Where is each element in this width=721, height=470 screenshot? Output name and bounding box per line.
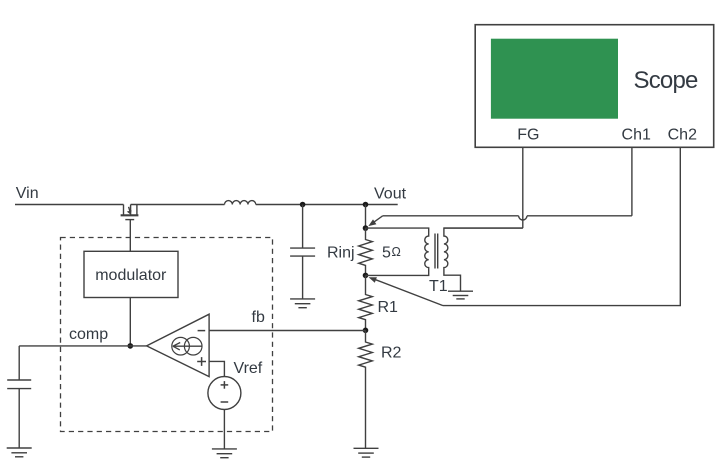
arrow Ch2 to injection bottom node: [369, 277, 443, 305]
wire hop over FG line: [519, 216, 527, 220]
resistor R1: [359, 275, 373, 330]
ground under Cout: [290, 299, 315, 308]
wire op-amp plus input to Vref: [209, 361, 224, 376]
ground under R2: [354, 448, 379, 457]
wire line A left segment: [383, 215, 519, 217]
transistor Q1 (high-side MOSFET): [121, 205, 139, 220]
svg-text:FG: FG: [517, 127, 539, 144]
wire switch node to inductor: [131, 204, 225, 206]
svg-text:comp: comp: [69, 326, 108, 343]
svg-text:R2: R2: [381, 345, 402, 362]
capacitor comp: [7, 346, 31, 448]
wire FG to transformer primary top: [444, 227, 523, 229]
wire FG output: [522, 147, 524, 228]
svg-text:Ch2: Ch2: [668, 127, 697, 144]
scope box: [475, 25, 714, 148]
resistor Rinj: [359, 228, 373, 275]
ground under T1 primary: [448, 291, 473, 299]
transformer T1 core: [435, 234, 438, 269]
capacitor Cout: [290, 205, 315, 299]
node injection top: [363, 225, 369, 231]
node Vout: [363, 202, 369, 208]
transformer T1 winding primary (right): [444, 228, 523, 291]
svg-text:R1: R1: [378, 299, 399, 316]
voltage source Vref: [208, 377, 241, 410]
svg-text:Ch1: Ch1: [622, 127, 651, 144]
arrow to injection top node: [368, 216, 382, 226]
svg-text:Rinj: Rinj: [327, 245, 355, 262]
svg-text:T1: T1: [429, 278, 448, 295]
modulator block: [84, 251, 178, 297]
node injection bottom: [363, 273, 369, 279]
svg-text:Ω: Ω: [392, 245, 401, 259]
op-amp U1 error amplifier: [147, 314, 210, 376]
wire Ch2: [443, 147, 680, 305]
wire Ch1 to injection top (line A): [527, 215, 632, 217]
wire inductor to Vout: [256, 204, 398, 206]
scope green screen: [491, 39, 618, 119]
ground under comp capacitor: [7, 448, 32, 457]
node comp: [128, 343, 134, 349]
svg-text:Scope: Scope: [634, 67, 699, 94]
dashed box control-loop boundary: [61, 238, 273, 432]
node fb divider: [363, 328, 369, 334]
svg-text:fb: fb: [252, 309, 265, 326]
wire Ch1: [631, 147, 633, 216]
wire modulator to comp node: [129, 298, 131, 346]
wire fb: [209, 330, 365, 332]
wire comp: [19, 345, 146, 347]
wire Q1 gate stem: [129, 220, 131, 252]
wire Vout to injection node: [365, 205, 367, 229]
wire Vref to ground: [223, 410, 225, 449]
svg-text:modulator: modulator: [95, 267, 167, 284]
svg-text:Vref: Vref: [234, 360, 263, 377]
node output capacitor junction: [300, 202, 306, 208]
ground under Vref: [212, 449, 237, 458]
svg-text:5: 5: [382, 245, 391, 262]
inductor L: [225, 201, 256, 205]
transformer T1 winding secondary (left): [366, 228, 429, 275]
resistor R2: [359, 330, 373, 448]
svg-text:Vout: Vout: [374, 186, 407, 203]
wire Vin input: [15, 204, 124, 206]
svg-text:Vin: Vin: [16, 185, 39, 202]
